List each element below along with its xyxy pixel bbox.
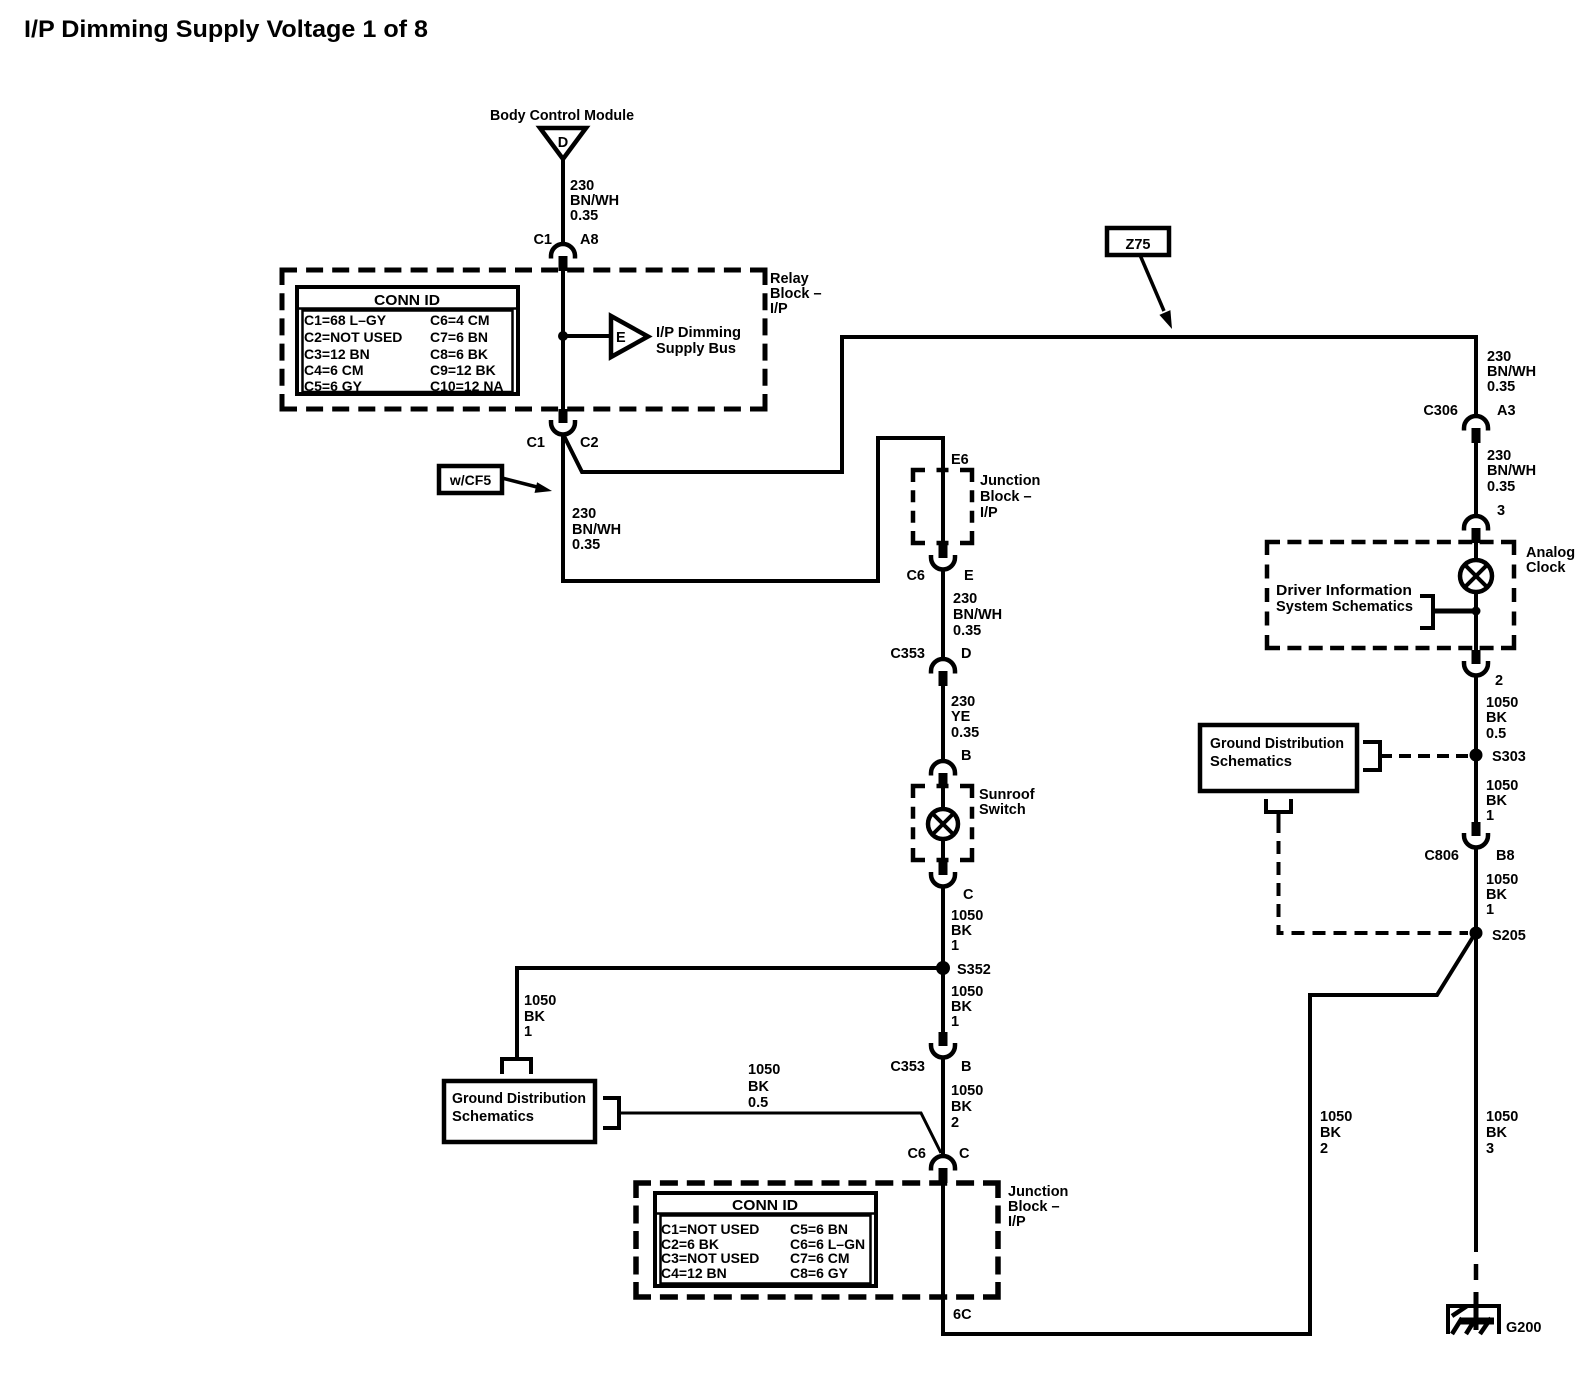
dashed wire ground distribution to S205 — [1279, 820, 1469, 933]
svg-text:0.5: 0.5 — [748, 1095, 768, 1111]
connector pin 3 (analog clock) — [1464, 503, 1505, 543]
Driver Information System Schematics label — [1276, 583, 1413, 615]
connector C1 pin C2 — [526, 409, 598, 451]
svg-text:S205: S205 — [1492, 928, 1526, 944]
Z75 callout box with arrow — [1107, 228, 1172, 329]
wire label 1050 BK 1 (below S352) — [951, 984, 983, 1030]
Ground Distribution Schematics box (left) — [444, 1081, 595, 1142]
svg-text:C1: C1 — [533, 232, 552, 248]
Analog Clock dashed box — [1267, 542, 1514, 648]
svg-text:Schematics: Schematics — [1210, 754, 1292, 770]
bracket driver information tie — [1420, 596, 1433, 628]
bracket right of right Ground Distribution box — [1363, 742, 1380, 770]
svg-text:1: 1 — [1486, 902, 1494, 918]
svg-text:C3=NOT USED: C3=NOT USED — [661, 1250, 759, 1266]
dashed wire segment above G200 — [1474, 1264, 1479, 1301]
wire C353/B to C6/C — [941, 1057, 945, 1157]
svg-text:A8: A8 — [580, 232, 599, 248]
connector C6 pin E — [906, 544, 974, 584]
node: clock internal junction — [1472, 607, 1481, 616]
Sunroof Switch dashed box — [913, 786, 972, 860]
svg-text:BK: BK — [951, 923, 972, 939]
svg-text:C806: C806 — [1424, 848, 1459, 864]
svg-text:1050: 1050 — [1320, 1109, 1352, 1125]
wire C353/D to sunroof B — [941, 686, 945, 762]
svg-text:Clock: Clock — [1526, 560, 1566, 576]
off-page triangle D (Body Control Module) — [540, 128, 586, 159]
svg-text:1: 1 — [1486, 808, 1494, 824]
svg-text:230: 230 — [953, 591, 977, 607]
svg-text:D: D — [961, 646, 971, 662]
connector C6 pin C — [907, 1146, 970, 1183]
svg-text:C7=6 CM: C7=6 CM — [790, 1250, 850, 1266]
connector C353 pin B — [890, 1032, 971, 1075]
wire label 230 BN/WH 0.35 (above C306) — [1487, 349, 1536, 395]
svg-text:BK: BK — [1486, 1125, 1507, 1141]
connector C306 pin A3 — [1423, 403, 1515, 443]
Relay Block I/P dashed box — [282, 270, 765, 409]
svg-text:230: 230 — [1487, 349, 1511, 365]
Junction Block I/P dashed box (bottom) — [636, 1183, 998, 1297]
svg-text:C1: C1 — [526, 435, 545, 451]
svg-text:Block –: Block – — [1008, 1199, 1060, 1215]
node S205 — [1470, 927, 1526, 945]
svg-text:CONN ID: CONN ID — [732, 1197, 798, 1214]
svg-text:0.35: 0.35 — [570, 208, 598, 224]
svg-text:1050: 1050 — [1486, 1109, 1518, 1125]
svg-text:C7=6 BN: C7=6 BN — [430, 329, 488, 345]
svg-text:BN/WH: BN/WH — [953, 607, 1002, 623]
wire C806/B8 to S205 to ground — [1474, 847, 1478, 1252]
Analog Clock label — [1526, 545, 1575, 576]
wire S352 branch to left ground distribution — [517, 968, 943, 1060]
connector pin 2 (analog clock) — [1464, 650, 1503, 689]
svg-text:0.35: 0.35 — [1487, 379, 1515, 395]
svg-text:I/P: I/P — [1008, 1214, 1026, 1230]
svg-text:0.35: 0.35 — [951, 725, 979, 741]
svg-text:1050: 1050 — [524, 993, 556, 1009]
wire into sunroof lamp — [941, 786, 945, 811]
dashed wire bracket to S303 — [1380, 754, 1468, 758]
svg-text:0.35: 0.35 — [953, 623, 981, 639]
svg-text:6C: 6C — [953, 1307, 972, 1323]
svg-text:2: 2 — [1320, 1141, 1328, 1157]
svg-text:Junction: Junction — [980, 473, 1040, 489]
node S303 — [1470, 749, 1526, 766]
svg-text:Driver Information: Driver Information — [1276, 583, 1412, 599]
svg-text:Z75: Z75 — [1126, 237, 1151, 253]
wire junction block 6C to S205 branch — [943, 937, 1473, 1334]
svg-text:Block –: Block – — [980, 489, 1032, 505]
svg-text:BK: BK — [951, 999, 972, 1015]
wire BCM to C1/A8 — [561, 158, 565, 245]
lamp: sunroof switch illumination bulb — [928, 809, 958, 839]
svg-text:Relay: Relay — [770, 271, 809, 287]
svg-text:C6: C6 — [906, 568, 925, 584]
svg-text:1050: 1050 — [951, 1083, 983, 1099]
wire clock lamp to pin 2 — [1474, 591, 1478, 650]
svg-text:C5=6 BN: C5=6 BN — [790, 1221, 848, 1237]
svg-text:Junction: Junction — [1008, 1184, 1068, 1200]
svg-text:230: 230 — [1487, 448, 1511, 464]
svg-text:BK: BK — [1320, 1125, 1341, 1141]
CONN ID table rows (relay block) — [304, 312, 504, 394]
w/CF5 callout box with arrow — [439, 466, 552, 493]
svg-text:S303: S303 — [1492, 749, 1526, 765]
svg-text:3: 3 — [1497, 503, 1505, 519]
svg-text:0.35: 0.35 — [1487, 479, 1515, 495]
svg-text:C1=NOT USED: C1=NOT USED — [661, 1221, 759, 1237]
wire label 1050 BK 1 (above S205) — [1486, 872, 1518, 918]
svg-text:CONN ID: CONN ID — [374, 292, 440, 309]
wire C306/A3 to clock pin 3 — [1474, 443, 1478, 517]
svg-text:2: 2 — [1495, 673, 1503, 689]
svg-text:YE: YE — [951, 709, 971, 725]
svg-text:B8: B8 — [1496, 848, 1515, 864]
wire label 1050 BK 1 (above S352) — [951, 908, 983, 954]
svg-text:C1=68 L–GY: C1=68 L–GY — [304, 312, 387, 328]
ground G200 symbol — [1448, 1292, 1499, 1334]
wire label 230 BN/WH 0.35 — [570, 178, 619, 224]
Junction Block I/P small dashed box — [913, 470, 972, 543]
svg-text:C10=12 NA: C10=12 NA — [430, 378, 504, 394]
svg-text:I/P Dimming: I/P Dimming — [656, 325, 741, 341]
svg-text:1: 1 — [951, 938, 959, 954]
lamp: analog clock illumination bulb — [1460, 560, 1492, 592]
svg-text:Body Control Module: Body Control Module — [490, 108, 634, 124]
svg-text:0.5: 0.5 — [1486, 726, 1506, 742]
svg-text:C5=6 GY: C5=6 GY — [304, 378, 363, 394]
wire dot to bus driver — [563, 334, 611, 338]
svg-text:C6: C6 — [907, 1146, 926, 1162]
wire label 230 BN/WH 0.35 (junction to C353) — [953, 591, 1002, 639]
svg-text:C2=NOT USED: C2=NOT USED — [304, 329, 402, 345]
svg-text:2: 2 — [951, 1115, 959, 1131]
Sunroof Switch label — [979, 787, 1035, 818]
svg-text:I/P: I/P — [980, 505, 998, 521]
svg-text:C353: C353 — [890, 1059, 925, 1075]
svg-text:BK: BK — [1486, 710, 1507, 726]
svg-text:C4=12 BN: C4=12 BN — [661, 1265, 727, 1281]
CONN ID table (relay block) — [296, 287, 519, 394]
CONN ID table (junction block) — [654, 1193, 877, 1286]
Relay Block I/P label — [770, 271, 822, 317]
svg-text:BN/WH: BN/WH — [572, 522, 621, 538]
svg-text:C3=12 BN: C3=12 BN — [304, 346, 370, 362]
wire label 1050 BK 2 (above C6) — [951, 1083, 983, 1131]
svg-text:E6: E6 — [951, 452, 969, 468]
bracket on top of left Ground Distribution box — [502, 1059, 531, 1074]
wire label 230 BN/WH 0.35 (C2 branch) — [572, 506, 621, 553]
svg-text:BK: BK — [1486, 887, 1507, 903]
svg-text:Supply Bus: Supply Bus — [656, 341, 736, 357]
bracket right of left Ground Distribution box — [603, 1098, 619, 1128]
wire label 1050 BK 0.5 — [748, 1062, 780, 1111]
node S352 — [936, 961, 991, 978]
svg-text:1050: 1050 — [1486, 872, 1518, 888]
connector pin B (sunroof switch) — [931, 748, 971, 788]
connector pin C (sunroof switch) — [931, 861, 974, 903]
wire label 1050 BK 2 (bottom) — [1320, 1109, 1352, 1157]
svg-text:BN/WH: BN/WH — [1487, 463, 1536, 479]
wire bracket to clock circuit — [1433, 609, 1476, 614]
bracket under right Ground Distribution box — [1266, 799, 1291, 820]
wire label 1050 BK 1 (left branch) — [524, 993, 556, 1040]
svg-text:3: 3 — [1486, 1141, 1494, 1157]
wire label 230 BN/WH 0.35 (below C306) — [1487, 448, 1536, 495]
svg-text:Switch: Switch — [979, 802, 1026, 818]
I/P Dimming Supply Bus label — [656, 325, 741, 357]
svg-text:System Schematics: System Schematics — [1276, 599, 1413, 615]
svg-text:I/P Dimming Supply Voltage 1 o: I/P Dimming Supply Voltage 1 of 8 — [24, 16, 428, 43]
Junction Block I/P label (small box) — [980, 473, 1040, 521]
svg-text:1: 1 — [951, 1014, 959, 1030]
svg-text:Block –: Block – — [770, 286, 822, 302]
svg-text:B: B — [961, 748, 971, 764]
svg-text:C: C — [959, 1146, 970, 1162]
svg-text:1050: 1050 — [1486, 778, 1518, 794]
svg-text:C8=6 BK: C8=6 BK — [430, 346, 488, 362]
svg-text:E: E — [964, 568, 974, 584]
Ground Distribution Schematics box (right) — [1200, 725, 1357, 791]
Junction Block I/P label (bottom box) — [1008, 1184, 1068, 1230]
wire C2 diagonal branch to Z75 bus and C306 — [563, 337, 1476, 472]
svg-text:230: 230 — [570, 178, 594, 194]
svg-text:230: 230 — [951, 694, 975, 710]
svg-text:1050: 1050 — [748, 1062, 780, 1078]
wire C6/E to C353/D — [941, 569, 945, 660]
svg-text:C4=6 CM: C4=6 CM — [304, 362, 364, 378]
svg-text:G200: G200 — [1506, 1320, 1541, 1336]
svg-text:I/P: I/P — [770, 301, 788, 317]
svg-text:C9=12 BK: C9=12 BK — [430, 362, 496, 378]
svg-text:C8=6 GY: C8=6 GY — [790, 1265, 849, 1281]
svg-text:Analog: Analog — [1526, 545, 1575, 561]
svg-text:BK: BK — [951, 1099, 972, 1115]
svg-text:1050: 1050 — [951, 984, 983, 1000]
svg-text:w/CF5: w/CF5 — [449, 472, 491, 488]
svg-text:1050: 1050 — [951, 908, 983, 924]
svg-text:D: D — [558, 135, 568, 151]
svg-text:C6=4 CM: C6=4 CM — [430, 312, 490, 328]
wire label 1050 BK 0.5 (below clock) — [1486, 695, 1518, 742]
svg-text:BK: BK — [748, 1079, 769, 1095]
svg-text:1050: 1050 — [1486, 695, 1518, 711]
svg-text:BN/WH: BN/WH — [570, 193, 619, 209]
wire pin 2 to S303 — [1474, 675, 1478, 823]
svg-text:Schematics: Schematics — [452, 1109, 534, 1125]
connector C1 pin A8 — [533, 232, 598, 271]
svg-text:C306: C306 — [1423, 403, 1458, 419]
wire ground distribution to C6/C (1050 BK 0.5) — [619, 1113, 941, 1153]
svg-text:Ground Distribution: Ground Distribution — [1210, 736, 1344, 752]
CONN ID table rows (junction block) — [661, 1221, 865, 1281]
svg-text:C353: C353 — [890, 646, 925, 662]
svg-text:Sunroof: Sunroof — [979, 787, 1035, 803]
svg-text:S352: S352 — [957, 962, 991, 978]
svg-text:BK: BK — [524, 1009, 545, 1025]
connector C806 pin B8 — [1424, 822, 1514, 864]
bus driver triangle E (I/P Dimming Supply Bus) — [611, 316, 648, 357]
svg-text:A3: A3 — [1497, 403, 1516, 419]
wire C2 down-left branch to junction block E6 — [563, 434, 943, 581]
svg-text:0.35: 0.35 — [572, 537, 600, 553]
svg-text:BK: BK — [1486, 793, 1507, 809]
wire label 1050 BK 1 (S303 to C806) — [1486, 778, 1518, 824]
svg-text:BN/WH: BN/WH — [1487, 364, 1536, 380]
wire label 1050 BK 3 — [1486, 1109, 1518, 1157]
svg-text:1: 1 — [524, 1024, 532, 1040]
svg-text:E: E — [616, 330, 626, 346]
svg-text:C: C — [963, 887, 974, 903]
wire label 230 YE 0.35 — [951, 694, 979, 741]
svg-text:Ground Distribution: Ground Distribution — [452, 1091, 586, 1107]
wire into clock lamp — [1474, 542, 1478, 561]
svg-text:230: 230 — [572, 506, 596, 522]
svg-text:B: B — [961, 1059, 971, 1075]
wire out of sunroof lamp — [941, 838, 945, 862]
wire C to S352 to C353/B — [941, 886, 945, 1033]
wire through relay block — [561, 258, 565, 410]
connector C353 pin D — [890, 646, 971, 686]
svg-text:C2: C2 — [580, 435, 599, 451]
node: junction dot in relay block — [558, 331, 568, 341]
